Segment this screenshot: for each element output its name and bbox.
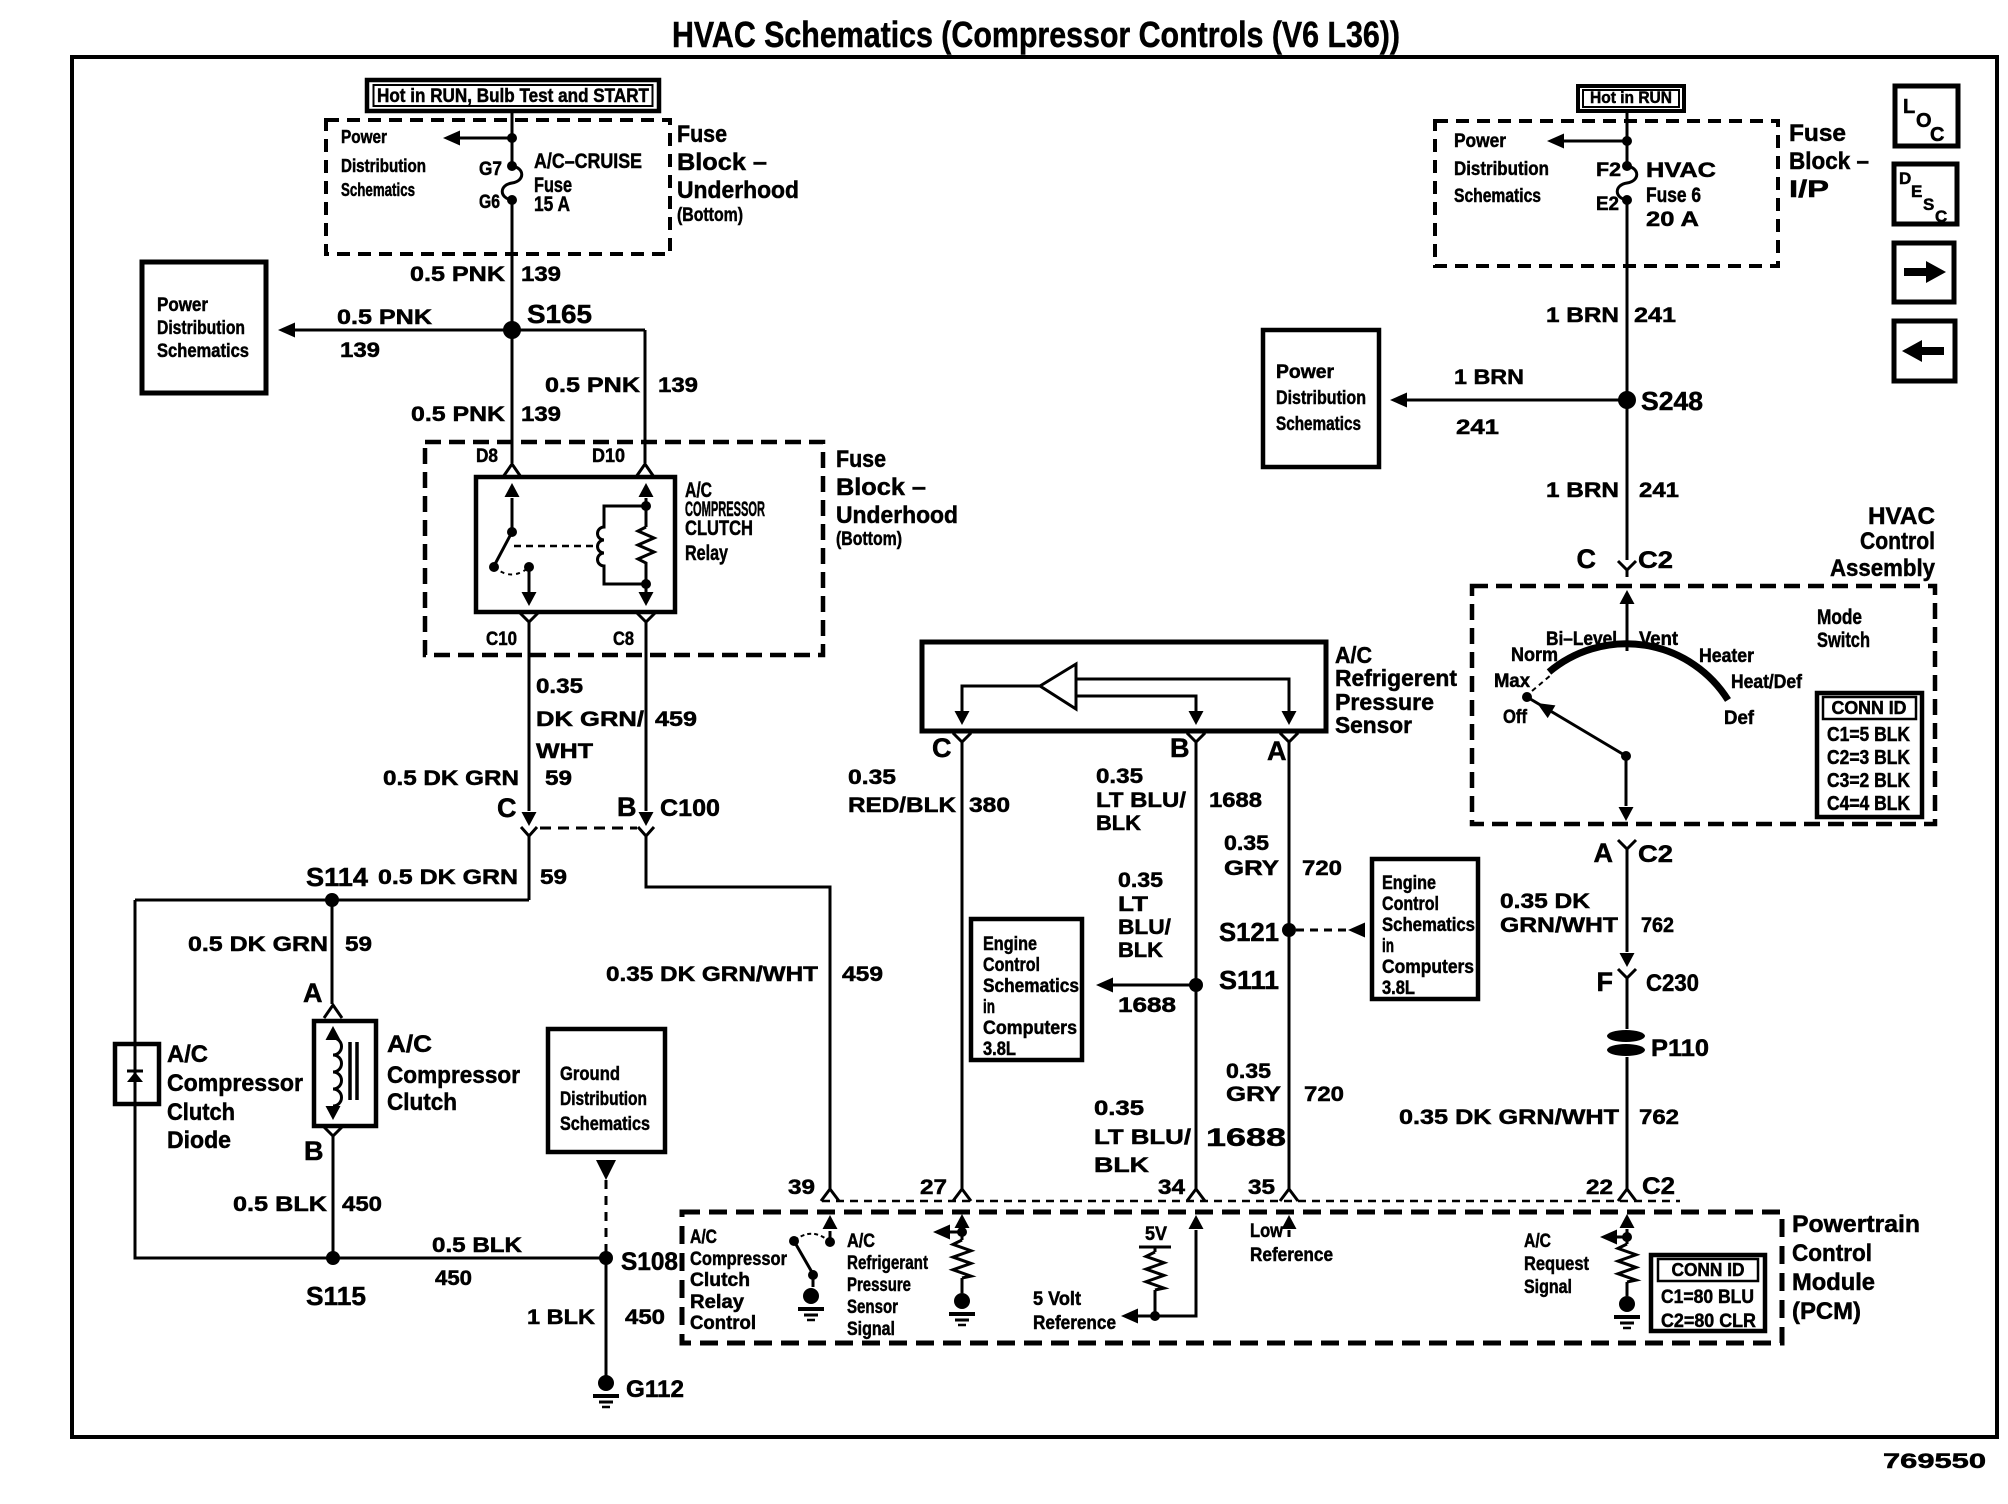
svg-text:WHT: WHT: [536, 740, 593, 763]
svg-text:Power: Power: [157, 295, 209, 316]
svg-text:BLU/: BLU/: [1118, 916, 1171, 939]
svg-text:Underhood: Underhood: [836, 502, 958, 529]
svg-text:S111: S111: [1219, 965, 1279, 995]
svg-text:0.5 PNK: 0.5 PNK: [411, 403, 505, 426]
svg-text:A/C: A/C: [387, 1031, 432, 1058]
svg-text:C2: C2: [1638, 547, 1673, 574]
svg-text:BLK: BLK: [1096, 812, 1141, 835]
svg-text:C: C: [1935, 207, 1947, 226]
svg-text:Heat/Def: Heat/Def: [1731, 672, 1803, 693]
svg-text:Assembly: Assembly: [1830, 555, 1936, 582]
svg-text:0.5 DK GRN: 0.5 DK GRN: [383, 767, 519, 790]
svg-text:Engine: Engine: [983, 934, 1037, 955]
svg-text:P110: P110: [1651, 1035, 1709, 1062]
svg-text:Power: Power: [1454, 131, 1507, 152]
svg-text:Schematics: Schematics: [560, 1114, 650, 1135]
svg-text:Reference: Reference: [1250, 1245, 1333, 1266]
svg-text:RED/BLK: RED/BLK: [848, 794, 956, 817]
svg-text:Refrigerent: Refrigerent: [1335, 665, 1457, 691]
svg-text:0.35: 0.35: [1118, 869, 1163, 892]
svg-text:S248: S248: [1641, 386, 1703, 416]
svg-text:Distribution: Distribution: [157, 318, 245, 339]
svg-text:Fuse: Fuse: [1789, 120, 1846, 147]
svg-text:G6: G6: [479, 192, 500, 213]
svg-text:B: B: [304, 1136, 324, 1166]
svg-text:A/C–CRUISE: A/C–CRUISE: [534, 150, 642, 173]
svg-text:Def: Def: [1724, 708, 1755, 729]
svg-text:1688: 1688: [1206, 1124, 1286, 1152]
svg-text:27: 27: [920, 1176, 947, 1199]
svg-text:3.8L: 3.8L: [1382, 978, 1415, 999]
svg-text:Sensor: Sensor: [847, 1297, 898, 1318]
svg-text:0.35: 0.35: [1094, 1097, 1144, 1120]
svg-text:D10: D10: [592, 446, 625, 467]
svg-text:241: 241: [1456, 416, 1499, 439]
svg-text:Switch: Switch: [1817, 629, 1870, 652]
svg-text:in: in: [1382, 936, 1394, 957]
svg-text:DK GRN/: DK GRN/: [536, 708, 644, 731]
svg-text:Relay: Relay: [690, 1292, 744, 1313]
svg-text:0.35 DK GRN/WHT: 0.35 DK GRN/WHT: [606, 963, 818, 986]
svg-text:S121: S121: [1219, 917, 1279, 947]
svg-text:CLUTCH: CLUTCH: [685, 517, 753, 540]
svg-text:LT BLU/: LT BLU/: [1096, 789, 1186, 812]
svg-text:S115: S115: [306, 1281, 366, 1311]
svg-text:5V: 5V: [1145, 1224, 1167, 1245]
svg-text:450: 450: [342, 1193, 382, 1216]
svg-text:Distribution: Distribution: [341, 156, 426, 176]
svg-text:Powertrain: Powertrain: [1792, 1211, 1920, 1238]
svg-text:0.35: 0.35: [1096, 765, 1143, 788]
svg-text:GRY: GRY: [1224, 857, 1279, 880]
svg-text:Low: Low: [1250, 1221, 1283, 1242]
svg-text:in: in: [983, 997, 995, 1018]
svg-text:CONN ID: CONN ID: [1832, 698, 1907, 718]
svg-text:Reference: Reference: [1033, 1313, 1116, 1334]
svg-text:Schematics: Schematics: [157, 341, 249, 362]
svg-text:Pressure: Pressure: [847, 1275, 911, 1296]
svg-text:C2=80 CLR: C2=80 CLR: [1661, 1311, 1756, 1332]
svg-text:59: 59: [345, 933, 372, 956]
svg-text:Compressor: Compressor: [387, 1062, 520, 1089]
svg-text:Schematics: Schematics: [983, 976, 1079, 997]
svg-text:35: 35: [1248, 1176, 1275, 1199]
svg-text:1 BLK: 1 BLK: [527, 1306, 595, 1329]
svg-text:Diode: Diode: [167, 1127, 231, 1154]
svg-text:241: 241: [1639, 479, 1679, 502]
svg-text:139: 139: [658, 374, 698, 397]
svg-text:0.35: 0.35: [536, 675, 583, 698]
svg-text:C230: C230: [1646, 970, 1699, 997]
svg-text:D: D: [1899, 169, 1911, 188]
svg-text:20 A: 20 A: [1646, 208, 1699, 231]
svg-text:Clutch: Clutch: [690, 1270, 750, 1291]
svg-text:Schematics: Schematics: [1454, 186, 1541, 207]
svg-text:Computers: Computers: [1382, 957, 1474, 978]
svg-text:Schematics: Schematics: [1276, 414, 1361, 435]
svg-text:Underhood: Underhood: [677, 177, 799, 204]
svg-text:L: L: [1903, 96, 1915, 118]
svg-text:34: 34: [1158, 1176, 1185, 1199]
svg-text:C10: C10: [486, 629, 517, 650]
svg-text:Ground: Ground: [560, 1064, 620, 1085]
svg-text:0.5 PNK: 0.5 PNK: [545, 374, 640, 397]
svg-text:C: C: [497, 793, 517, 823]
svg-text:Relay: Relay: [685, 542, 728, 565]
svg-text:Control: Control: [1792, 1240, 1872, 1267]
svg-text:Control: Control: [690, 1313, 756, 1334]
svg-text:C100: C100: [660, 795, 720, 822]
svg-text:39: 39: [788, 1176, 815, 1199]
svg-text:S114: S114: [306, 862, 369, 892]
svg-text:Sensor: Sensor: [1335, 712, 1412, 738]
svg-text:Distribution: Distribution: [1454, 159, 1549, 180]
svg-text:139: 139: [340, 339, 380, 362]
svg-text:A/C: A/C: [847, 1231, 875, 1252]
svg-text:139: 139: [521, 403, 561, 426]
svg-text:720: 720: [1304, 1083, 1344, 1106]
svg-text:CONN ID: CONN ID: [1672, 1260, 1745, 1280]
svg-text:5 Volt: 5 Volt: [1033, 1289, 1082, 1310]
svg-text:C2: C2: [1642, 1173, 1675, 1200]
svg-text:(Bottom): (Bottom): [677, 205, 743, 226]
svg-text:GRY: GRY: [1226, 1083, 1281, 1106]
svg-text:Signal: Signal: [1524, 1277, 1572, 1298]
svg-text:Mode: Mode: [1817, 606, 1862, 629]
svg-text:Hot in RUN: Hot in RUN: [1590, 88, 1672, 107]
svg-text:S165: S165: [527, 299, 592, 329]
svg-text:C: C: [1930, 124, 1944, 146]
svg-text:Distribution: Distribution: [560, 1089, 647, 1110]
svg-text:Block –: Block –: [836, 474, 926, 501]
svg-text:1 BRN: 1 BRN: [1546, 479, 1619, 502]
svg-text:380: 380: [969, 794, 1010, 817]
svg-text:0.5 DK GRN: 0.5 DK GRN: [188, 933, 328, 956]
svg-text:Clutch: Clutch: [167, 1099, 235, 1126]
svg-text:769550: 769550: [1883, 1450, 1986, 1473]
svg-text:G7: G7: [479, 159, 502, 180]
svg-text:Signal: Signal: [847, 1319, 895, 1340]
svg-text:Fuse: Fuse: [677, 121, 727, 148]
svg-text:241: 241: [1634, 304, 1676, 327]
svg-text:0.5 PNK: 0.5 PNK: [337, 306, 432, 329]
svg-text:BLK: BLK: [1118, 939, 1163, 962]
svg-text:450: 450: [435, 1267, 472, 1290]
svg-text:C8: C8: [613, 629, 634, 650]
svg-text:C2=3 BLK: C2=3 BLK: [1827, 747, 1910, 769]
svg-text:0.5 BLK: 0.5 BLK: [233, 1193, 327, 1216]
svg-text:A: A: [303, 978, 323, 1008]
svg-text:Control: Control: [983, 955, 1040, 976]
svg-text:C: C: [932, 733, 952, 763]
svg-text:C1=5 BLK: C1=5 BLK: [1827, 724, 1910, 746]
svg-text:0.5 BLK: 0.5 BLK: [432, 1234, 522, 1257]
svg-text:450: 450: [625, 1306, 665, 1329]
svg-text:Computers: Computers: [983, 1018, 1077, 1039]
svg-text:Refrigerant: Refrigerant: [847, 1253, 929, 1274]
svg-text:Control: Control: [1382, 894, 1439, 915]
svg-text:Module: Module: [1792, 1269, 1875, 1296]
svg-text:22: 22: [1586, 1176, 1613, 1199]
svg-text:Compressor: Compressor: [690, 1249, 788, 1270]
svg-text:B: B: [1170, 733, 1190, 763]
svg-text:A: A: [1594, 838, 1614, 868]
svg-text:GRN/WHT: GRN/WHT: [1500, 914, 1618, 937]
svg-text:15 A: 15 A: [534, 193, 570, 216]
svg-text:Power: Power: [341, 127, 387, 147]
svg-text:B: B: [617, 792, 637, 822]
svg-text:Engine: Engine: [1382, 873, 1436, 894]
svg-text:Distribution: Distribution: [1276, 388, 1366, 409]
svg-text:0.35: 0.35: [1224, 832, 1269, 855]
svg-text:I/P: I/P: [1789, 176, 1829, 203]
svg-text:762: 762: [1639, 1106, 1679, 1129]
svg-text:Clutch: Clutch: [387, 1089, 457, 1116]
svg-text:Fuse 6: Fuse 6: [1646, 184, 1701, 207]
svg-text:459: 459: [655, 708, 697, 731]
svg-text:Compressor: Compressor: [167, 1070, 303, 1097]
svg-text:0.5 PNK: 0.5 PNK: [410, 263, 505, 286]
svg-text:139: 139: [521, 263, 561, 286]
svg-text:Schematics: Schematics: [1382, 915, 1475, 936]
svg-text:F: F: [1597, 967, 1614, 997]
svg-text:Block –: Block –: [677, 149, 767, 176]
svg-text:Bi–Level: Bi–Level: [1546, 629, 1617, 650]
svg-text:C3=2 BLK: C3=2 BLK: [1827, 770, 1910, 792]
svg-text:(PCM): (PCM): [1792, 1298, 1861, 1325]
svg-text:762: 762: [1641, 914, 1674, 937]
svg-text:Off: Off: [1503, 707, 1528, 728]
svg-text:LT: LT: [1118, 893, 1148, 916]
svg-text:G112: G112: [626, 1376, 684, 1403]
svg-text:C2: C2: [1638, 841, 1673, 868]
svg-text:0.35: 0.35: [848, 766, 896, 789]
svg-text:HVAC: HVAC: [1868, 503, 1935, 530]
svg-text:Schematics: Schematics: [341, 180, 415, 200]
svg-text:1 BRN: 1 BRN: [1454, 366, 1524, 389]
svg-text:A/C: A/C: [1524, 1231, 1551, 1252]
svg-text:HVAC Schematics (Compressor Co: HVAC Schematics (Compressor Controls (V6…: [672, 14, 1400, 55]
svg-text:A: A: [1267, 736, 1287, 766]
svg-text:A/C: A/C: [690, 1227, 717, 1248]
svg-text:59: 59: [545, 767, 572, 790]
svg-text:BLK: BLK: [1094, 1154, 1149, 1177]
svg-text:LT BLU/: LT BLU/: [1094, 1126, 1191, 1149]
svg-text:S108: S108: [621, 1248, 678, 1276]
svg-text:59: 59: [540, 866, 567, 889]
svg-text:Fuse: Fuse: [836, 446, 886, 473]
svg-text:S: S: [1923, 195, 1934, 214]
svg-text:E: E: [1911, 182, 1922, 201]
svg-text:Block –: Block –: [1789, 148, 1869, 175]
svg-text:HVAC: HVAC: [1646, 159, 1716, 182]
svg-text:C1=80 BLU: C1=80 BLU: [1661, 1287, 1754, 1308]
svg-text:Vent: Vent: [1639, 629, 1679, 650]
svg-text:A/C: A/C: [167, 1041, 208, 1068]
svg-text:0.35 DK GRN/WHT: 0.35 DK GRN/WHT: [1399, 1106, 1619, 1129]
svg-text:D8: D8: [476, 446, 498, 467]
svg-text:Request: Request: [1524, 1254, 1590, 1275]
svg-text:C: C: [1577, 544, 1597, 574]
svg-text:C4=4 BLK: C4=4 BLK: [1827, 793, 1910, 815]
svg-text:E2: E2: [1596, 194, 1619, 215]
svg-text:Max: Max: [1494, 671, 1530, 692]
svg-text:0.35: 0.35: [1226, 1060, 1271, 1083]
svg-text:Power: Power: [1276, 362, 1335, 383]
svg-text:1688: 1688: [1118, 994, 1176, 1017]
svg-text:Hot in RUN, Bulb Test and STAR: Hot in RUN, Bulb Test and START: [377, 86, 649, 107]
svg-text:0.5 DK GRN: 0.5 DK GRN: [378, 866, 518, 889]
svg-text:3.8L: 3.8L: [983, 1039, 1016, 1060]
svg-text:720: 720: [1302, 857, 1342, 880]
svg-text:1688: 1688: [1209, 789, 1262, 812]
svg-text:459: 459: [842, 963, 883, 986]
svg-text:Control: Control: [1860, 528, 1935, 555]
svg-text:0.35 DK: 0.35 DK: [1500, 890, 1590, 913]
svg-text:(Bottom): (Bottom): [836, 529, 902, 550]
svg-text:F2: F2: [1596, 160, 1621, 181]
svg-text:Heater: Heater: [1699, 646, 1755, 667]
svg-text:1 BRN: 1 BRN: [1546, 304, 1619, 327]
